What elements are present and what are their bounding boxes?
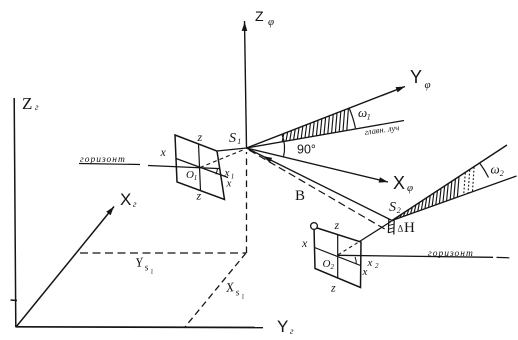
svg-text:X: X [224, 279, 236, 295]
svg-text:1: 1 [237, 137, 241, 146]
svg-text:2: 2 [397, 206, 401, 215]
svg-text:φ: φ [407, 182, 413, 194]
svg-text:2: 2 [375, 262, 379, 270]
svg-text:x: x [224, 167, 230, 179]
svg-text:O: O [186, 169, 194, 181]
svg-text:B: B [295, 188, 305, 204]
svg-text:X: X [120, 190, 131, 209]
svg-text:x: x [301, 236, 308, 250]
svg-text:г: г [290, 326, 294, 336]
svg-text:S: S [389, 200, 396, 215]
svg-text:г: г [35, 102, 39, 112]
svg-text:Z: Z [255, 8, 264, 24]
svg-text:H: H [404, 220, 415, 236]
svg-text:ω: ω [491, 162, 500, 177]
svg-text:1: 1 [367, 113, 371, 122]
svg-text:X: X [393, 173, 405, 193]
svg-text:1: 1 [241, 293, 245, 300]
svg-text:горизонт: горизонт [428, 249, 474, 259]
svg-text:z: z [196, 189, 202, 203]
svg-text:Y: Y [410, 67, 422, 87]
svg-text:s: s [144, 263, 149, 273]
svg-text:2: 2 [500, 169, 504, 178]
svg-text:1: 1 [231, 173, 235, 181]
svg-text:Y: Y [277, 317, 288, 336]
svg-text:x: x [160, 145, 167, 159]
svg-text:φ: φ [425, 79, 431, 91]
svg-text:S: S [229, 131, 236, 146]
svg-text:s: s [235, 288, 240, 298]
svg-text:90°: 90° [297, 143, 316, 157]
svg-text:Δ: Δ [398, 224, 404, 234]
svg-text:Z: Z [22, 94, 32, 113]
svg-text:главн. луч: главн. луч [364, 122, 400, 137]
svg-text:x: x [367, 257, 373, 269]
svg-text:г: г [133, 199, 137, 209]
svg-text:ω: ω [358, 105, 367, 120]
svg-text:2: 2 [331, 263, 335, 271]
svg-text:1: 1 [150, 268, 154, 275]
svg-text:φ: φ [268, 16, 274, 28]
svg-text:z: z [330, 281, 336, 295]
svg-text:z: z [197, 130, 203, 144]
svg-text:z: z [334, 218, 340, 232]
svg-text:1: 1 [194, 174, 198, 182]
svg-text:O: O [323, 258, 331, 270]
